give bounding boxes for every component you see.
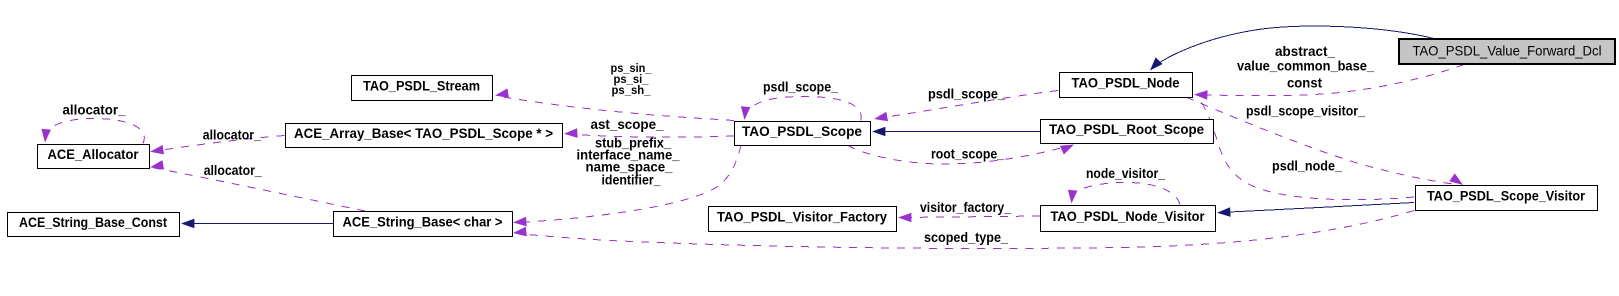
svg-text:TAO_PSDL_Visitor_Factory: TAO_PSDL_Visitor_Factory bbox=[717, 209, 887, 225]
edge psdl_scope_ from TAO_PSDL_Node to TAO_PSDL_Scope bbox=[874, 91, 1058, 122]
edge inheritance TAO_PSDL_Scope_Visitor to TAO_PSDL_Node_Visitor bbox=[1217, 203, 1414, 217]
svg-text:visitor_factory_: visitor_factory_ bbox=[920, 200, 1011, 215]
svg-text:allocator_: allocator_ bbox=[63, 103, 126, 118]
svg-text:TAO_PSDL_Stream: TAO_PSDL_Stream bbox=[363, 78, 480, 94]
svg-text:allocator_: allocator_ bbox=[203, 127, 261, 142]
edge abstract_/value_common_base_/const from TAO_PSDL_Value_Forward_Dcl to TAO_PSDL_Node bbox=[1194, 65, 1464, 100]
edge root_scope_ from TAO_PSDL_Scope to TAO_PSDL_Root_Scope bbox=[848, 145, 1074, 165]
svg-text:psdl_scope_visitor_: psdl_scope_visitor_ bbox=[1246, 104, 1365, 119]
edge psdl_scope_visitor_ from TAO_PSDL_Node to TAO_PSDL_Scope_Visitor bbox=[1186, 97, 1463, 185]
svg-text:const: const bbox=[1287, 76, 1322, 91]
svg-text:TAO_PSDL_Scope: TAO_PSDL_Scope bbox=[742, 124, 862, 140]
svg-text:identifier_: identifier_ bbox=[602, 173, 661, 188]
class TAO_PSDL_Stream bbox=[352, 76, 493, 101]
edge scoped_type_ from TAO_PSDL_Scope_Visitor to ACE_String_Base<char> bbox=[513, 211, 1414, 249]
class ACE_Array_Base< TAO_PSDL_Scope * > bbox=[286, 124, 563, 148]
edge inheritance TAO_PSDL_Root_Scope to TAO_PSDL_Scope bbox=[872, 127, 1040, 137]
class ACE_Allocator bbox=[38, 145, 150, 169]
svg-text:ACE_String_Base< char >: ACE_String_Base< char > bbox=[343, 214, 503, 230]
edge node_visitor_ self-loop on TAO_PSDL_Node_Visitor bbox=[1068, 183, 1180, 205]
svg-text:scoped_type_: scoped_type_ bbox=[924, 230, 1008, 245]
class ACE_String_Base_Const bbox=[8, 213, 180, 237]
class TAO_PSDL_Value_Forward_Dcl (current) bbox=[1399, 39, 1615, 64]
class TAO_PSDL_Node bbox=[1060, 73, 1193, 98]
edge stub_prefix_/interface_name_/name_space_/identifier_ from TAO_PSDL_Scope to ACE_String_Base<char> bbox=[513, 146, 741, 227]
svg-text:TAO_PSDL_Node_Visitor: TAO_PSDL_Node_Visitor bbox=[1051, 209, 1205, 225]
edge allocator_ self-loop on ACE_Allocator bbox=[41, 119, 144, 144]
svg-text:TAO_PSDL_Node: TAO_PSDL_Node bbox=[1072, 75, 1180, 91]
svg-text:TAO_PSDL_Scope_Visitor: TAO_PSDL_Scope_Visitor bbox=[1427, 188, 1585, 204]
edge psdl_node_ from TAO_PSDL_Scope_Visitor to TAO_PSDL_Node bbox=[1197, 97, 1414, 200]
svg-text:ACE_Array_Base< TAO_PSDL_Scope: ACE_Array_Base< TAO_PSDL_Scope * > bbox=[294, 126, 553, 142]
edge inheritance ACE_String_Base<char> to ACE_String_Base_Const bbox=[181, 219, 333, 229]
svg-text:ACE_String_Base_Const: ACE_String_Base_Const bbox=[19, 215, 167, 231]
edge inheritance TAO_PSDL_Value_Forward_Dcl to TAO_PSDL_Node bbox=[1150, 26, 1436, 70]
svg-text:psdl_scope_: psdl_scope_ bbox=[928, 87, 1005, 102]
svg-text:root_scope_: root_scope_ bbox=[931, 147, 1004, 162]
class TAO_PSDL_Scope bbox=[735, 122, 871, 146]
class TAO_PSDL_Root_Scope bbox=[1041, 120, 1214, 144]
edge allocator_ from ACE_String_Base to ACE_Allocator bbox=[150, 160, 365, 211]
edge psdl_scope_ self-loop on TAO_PSDL_Scope bbox=[741, 97, 861, 121]
svg-text:psdl_node_: psdl_node_ bbox=[1272, 159, 1342, 174]
edge visitor_factory_ from TAO_PSDL_Node_Visitor to TAO_PSDL_Visitor_Factory bbox=[898, 213, 1040, 223]
svg-text:TAO_PSDL_Value_Forward_Dcl: TAO_PSDL_Value_Forward_Dcl bbox=[1413, 43, 1602, 59]
svg-text:ps_sh_: ps_sh_ bbox=[612, 85, 652, 97]
class ACE_String_Base< char > bbox=[334, 212, 513, 237]
svg-text:node_visitor_: node_visitor_ bbox=[1086, 166, 1165, 181]
svg-text:TAO_PSDL_Root_Scope: TAO_PSDL_Root_Scope bbox=[1049, 122, 1204, 138]
edge allocator_ from ACE_Array_Base to ACE_Allocator bbox=[150, 136, 285, 155]
class TAO_PSDL_Node_Visitor bbox=[1041, 206, 1216, 232]
svg-text:ast_scope_: ast_scope_ bbox=[591, 117, 664, 132]
svg-text:ACE_Allocator: ACE_Allocator bbox=[48, 147, 139, 163]
svg-text:allocator_: allocator_ bbox=[204, 163, 262, 178]
class TAO_PSDL_Scope_Visitor bbox=[1416, 186, 1598, 211]
svg-text:psdl_scope_: psdl_scope_ bbox=[763, 80, 838, 95]
svg-text:value_common_base_: value_common_base_ bbox=[1237, 59, 1374, 74]
svg-text:abstract_: abstract_ bbox=[1275, 44, 1335, 59]
edge ps_sin_/ps_si_/ps_sh_ from TAO_PSDL_Scope to TAO_PSDL_Stream bbox=[495, 88, 734, 120]
edge ast_scope_ from TAO_PSDL_Scope to ACE_Array_Base bbox=[564, 128, 734, 138]
class TAO_PSDL_Visitor_Factory bbox=[709, 207, 897, 232]
